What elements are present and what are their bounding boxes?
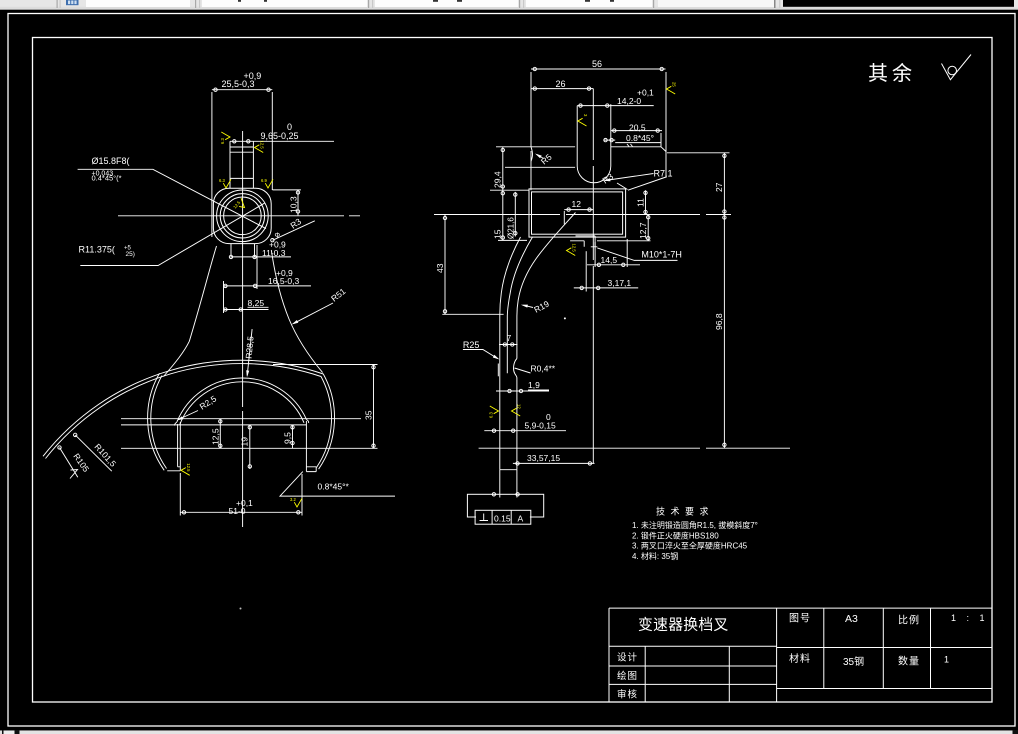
svg-text:R0,4**: R0,4** [531, 364, 556, 374]
svg-text:5,9-0,15: 5,9-0,15 [525, 421, 556, 431]
dim 15 [502, 190, 504, 240]
svg-text:Ø21,6: Ø21,6 [507, 217, 516, 239]
title block table [609, 608, 992, 702]
svg-text:8,25: 8,25 [248, 298, 265, 308]
svg-text:12: 12 [572, 199, 582, 209]
inner arc end curls R2.5 [174, 422, 176, 426]
svg-text:12.5: 12.5 [572, 244, 577, 253]
svg-text:12.5: 12.5 [260, 141, 265, 150]
svg-text:3.2: 3.2 [290, 497, 296, 502]
svg-text:51-0: 51-0 [229, 506, 246, 516]
svg-text:96,8: 96,8 [714, 313, 724, 330]
svg-text:1: 1 [944, 655, 949, 665]
svg-text:R7,1: R7,1 [654, 169, 673, 179]
jaw centerline lower [479, 447, 790, 449]
svg-text:14,5: 14,5 [601, 255, 618, 265]
hub cylinder rects [529, 189, 626, 237]
svg-text:0.4*45°(*: 0.4*45°(* [92, 174, 122, 183]
svg-text:29,4: 29,4 [493, 171, 503, 188]
dim 35 [373, 365, 375, 449]
svg-text:43: 43 [435, 263, 445, 273]
svg-text:3. 两叉口淬火至全厚硬度HRC45: 3. 两叉口淬火至全厚硬度HRC45 [632, 541, 748, 551]
threaded lug M10 [570, 236, 597, 247]
R0.4 fillet hook [514, 359, 517, 470]
svg-text:25): 25) [126, 251, 135, 258]
chamfer note 0.8x45 [280, 472, 395, 497]
jaw horizontal lines [121, 418, 361, 420]
svg-text:35钢: 35钢 [843, 655, 864, 668]
prong bottoms [167, 467, 180, 471]
dim 16.5 [224, 245, 258, 313]
svg-text:27: 27 [714, 182, 724, 192]
arm mid curve C2 [507, 237, 532, 373]
svg-text:9,5: 9,5 [283, 432, 293, 444]
svg-text:其余: 其余 [868, 62, 916, 85]
dim 43 [442, 313, 503, 315]
foot box [467, 494, 543, 517]
svg-text:审核: 审核 [617, 689, 638, 701]
svg-text:6.3: 6.3 [219, 178, 225, 183]
svg-text:56: 56 [592, 59, 602, 69]
svg-text:材料: 材料 [789, 652, 811, 665]
svg-text:10,3: 10,3 [289, 196, 299, 213]
taper to hub [628, 177, 666, 190]
arm inner curve C3 [517, 213, 576, 359]
jaw outer boundary with R105 tail, double arc [46, 364, 332, 468]
tab notch side [577, 104, 611, 166]
RIGHT VIEW [434, 59, 790, 524]
datum frame [475, 510, 531, 524]
svg-text:R25: R25 [463, 340, 480, 350]
toolbar blue icon [66, 0, 79, 5]
svg-text:12.5: 12.5 [186, 463, 191, 472]
centerlines [118, 215, 360, 217]
stray dot [564, 317, 566, 319]
svg-text:1,9: 1,9 [528, 380, 540, 390]
shift pad tab [230, 141, 253, 178]
dim 10.3 [273, 190, 301, 216]
svg-text:33,57,15: 33,57,15 [527, 453, 560, 463]
label R101.5 [75, 435, 112, 471]
left jog [497, 364, 499, 377]
svg-text:技 术 要 求: 技 术 要 求 [656, 506, 710, 517]
column bottom line [500, 469, 517, 471]
svg-text:变速器换档叉: 变速器换档叉 [638, 617, 729, 634]
toolbar combo boxes [86, 0, 190, 7]
svg-text:4. 材料: 35钢: 4. 材料: 35钢 [632, 551, 678, 561]
dim 11 right [645, 190, 647, 214]
qiyu roughness symbol [942, 55, 972, 80]
jaw outer boundary left branch double arc [151, 376, 167, 469]
centerline horizontal [434, 214, 731, 216]
fork flank right R51 [271, 250, 322, 373]
svg-text:6.3: 6.3 [488, 412, 493, 418]
LEFT VIEW [43, 71, 566, 610]
prong inner faces [178, 422, 181, 471]
svg-text:Φ: Φ [275, 233, 281, 240]
svg-text:0.8*45°*: 0.8*45°* [318, 482, 350, 492]
svg-text:数量: 数量 [898, 655, 920, 668]
svg-text:11: 11 [636, 198, 646, 207]
dim 9.5 [292, 425, 294, 448]
hub circles [217, 190, 269, 242]
svg-text:2. 锻件正火硬度HBS180: 2. 锻件正火硬度HBS180 [632, 531, 719, 541]
dim 96.8 [723, 215, 725, 449]
svg-text:1 : 1: 1 : 1 [951, 613, 989, 623]
svg-text:15: 15 [493, 229, 503, 239]
svg-text:3,17,1: 3,17,1 [608, 278, 632, 288]
dim 12.7 right [647, 215, 649, 241]
svg-text:6.9: 6.9 [261, 178, 267, 183]
svg-text:设计: 设计 [617, 652, 638, 664]
label R105 [60, 448, 78, 478]
svg-text:12,7: 12,7 [638, 222, 648, 239]
svg-text:19: 19 [240, 437, 250, 447]
svg-text:绘图: 绘图 [617, 670, 638, 682]
svg-text:7: 7 [507, 334, 512, 343]
toolbar separators [57, 0, 58, 8]
svg-text:14,2-0: 14,2-0 [617, 96, 641, 106]
hub boss rounded square [213, 188, 271, 243]
svg-text:26: 26 [556, 79, 566, 89]
body top outline [531, 146, 661, 148]
jaw inner opening double arc [177, 378, 307, 422]
svg-text:Ø15.8F8(: Ø15.8F8( [92, 156, 130, 166]
centerline vertical [592, 89, 594, 464]
top toolbar strip [0, 0, 783, 10]
svg-text:M10*1-7H: M10*1-7H [641, 250, 682, 260]
svg-text:6.3: 6.3 [220, 138, 225, 144]
dim dia21.6 [514, 192, 516, 237]
dim 27 [667, 152, 730, 154]
roughness symbols (yellow) [220, 132, 230, 144]
svg-text:11-0,3: 11-0,3 [262, 248, 286, 258]
dim 29.4 [490, 147, 575, 190]
status bar bottom [0, 730, 1018, 734]
svg-text:1. 未注明锻造圆角R1.5, 拔模斜度7°: 1. 未注明锻造圆角R1.5, 拔模斜度7° [632, 520, 758, 530]
arm outer curve C1 [500, 237, 521, 470]
svg-text:9,65-0,25: 9,65-0,25 [261, 131, 299, 141]
svg-text:R11.375(: R11.375( [79, 245, 115, 255]
svg-text:A3: A3 [845, 613, 858, 625]
svg-text:25: 25 [672, 82, 677, 87]
svg-text:图号: 图号 [789, 613, 811, 625]
svg-text:比例: 比例 [898, 614, 920, 627]
svg-text:25,5-0,3: 25,5-0,3 [222, 79, 255, 89]
svg-text:A: A [518, 514, 524, 524]
svg-text:35: 35 [364, 410, 374, 420]
svg-text:0.15: 0.15 [494, 514, 511, 524]
svg-text:12: 12 [517, 404, 522, 409]
dim 12.5 [219, 419, 221, 449]
svg-text:12,5: 12,5 [211, 428, 221, 445]
fork flank left R51 [164, 246, 217, 377]
dim 8.25 [224, 309, 269, 311]
svg-text:0.8*45°: 0.8*45° [626, 133, 654, 143]
dim 19 [249, 425, 251, 469]
svg-text:16,5-0,3: 16,5-0,3 [268, 276, 299, 286]
dim 11 stem [231, 244, 255, 258]
dim 51 bottom [180, 473, 302, 516]
